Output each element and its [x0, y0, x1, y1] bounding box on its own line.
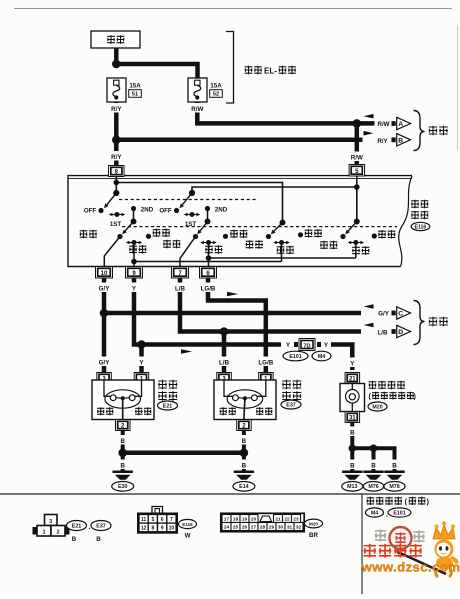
- wire R/W to switch pin 5: [355, 123, 360, 164]
- wire left lamp ground: [121, 431, 125, 471]
- svg-text:B: B: [392, 463, 397, 470]
- svg-text:EL-: EL-: [264, 67, 277, 76]
- svg-text:E37: E37: [96, 523, 105, 529]
- label headlamp switch: [411, 200, 428, 219]
- svg-text:B: B: [350, 463, 355, 470]
- svg-text:A: A: [398, 121, 403, 128]
- svg-text:L/B: L/B: [378, 330, 388, 337]
- svg-text:19: 19: [242, 517, 248, 522]
- connector oval E116 pinout: [179, 519, 197, 528]
- node ground bar right: [240, 449, 249, 458]
- label low D: [320, 241, 337, 249]
- wire high C down: [281, 243, 283, 262]
- svg-text:B: B: [398, 137, 403, 144]
- svg-text:7D: 7D: [303, 343, 310, 349]
- dimmer D low contact: [340, 234, 345, 239]
- node L/B junction: [220, 327, 229, 336]
- svg-text:LG/B: LG/B: [201, 286, 216, 293]
- connector oval E116: [411, 222, 430, 230]
- wire L/B to right lamp: [222, 332, 227, 374]
- wire battery down: [114, 48, 119, 64]
- wire pin 9 link: [133, 262, 135, 267]
- svg-text:3: 3: [49, 519, 52, 525]
- connector oval E101 ref: [388, 508, 411, 517]
- svg-text:1: 1: [42, 530, 45, 536]
- svg-text:M20: M20: [372, 404, 382, 410]
- dimmer C high wiper: [273, 240, 289, 245]
- svg-text:10: 10: [101, 271, 108, 277]
- connector 2 right lamp: [237, 420, 252, 431]
- wire line B to switch 2: [192, 187, 357, 193]
- label B B: [72, 536, 102, 543]
- svg-text:E116: E116: [415, 224, 427, 230]
- label Y after 7D: [324, 343, 328, 349]
- dimmer C neutral contact: [298, 232, 303, 237]
- separator line: [0, 493, 460, 495]
- label R/W: [186, 103, 208, 113]
- svg-text:L/B: L/B: [219, 360, 229, 367]
- wire 2ND to dimmer A: [133, 209, 135, 222]
- right headlamp: [214, 380, 276, 420]
- svg-text:E101: E101: [289, 354, 301, 360]
- connector oval E30: [112, 482, 134, 492]
- label right front headlamp: [282, 380, 301, 401]
- label high C: [277, 246, 294, 254]
- connector 21: [345, 373, 360, 384]
- dimmer D arm: [345, 222, 357, 235]
- svg-text:5: 5: [152, 517, 155, 523]
- svg-text:12: 12: [141, 526, 147, 532]
- connector 7D: [294, 339, 321, 351]
- svg-text:1ST: 1ST: [110, 221, 122, 228]
- wire line A to dimmer C: [116, 183, 282, 223]
- wire ground bar: [123, 451, 244, 456]
- svg-text:B: B: [72, 536, 77, 543]
- svg-text:23: 23: [293, 517, 299, 522]
- svg-text:M4: M4: [371, 510, 378, 516]
- svg-text:R/W: R/W: [377, 121, 389, 128]
- switch 2 1ST wiper: [184, 212, 200, 228]
- svg-text:B: B: [371, 463, 376, 470]
- connector 6: [200, 267, 217, 279]
- svg-text:51: 51: [132, 92, 138, 98]
- svg-text:B: B: [120, 438, 125, 445]
- svg-text:E30: E30: [118, 484, 127, 490]
- connector 8: [109, 166, 125, 177]
- watermark dzsc: [361, 521, 460, 577]
- svg-text:27: 27: [251, 525, 257, 530]
- label see last page: [367, 497, 430, 506]
- wire LG/B down: [208, 278, 266, 373]
- label L/B: [169, 283, 191, 293]
- svg-text:18: 18: [233, 517, 239, 522]
- switch 1 pivot: [113, 190, 119, 196]
- svg-text:LG/B: LG/B: [258, 360, 273, 367]
- connector pinout M20: [221, 513, 304, 531]
- label L/B right lamp: [213, 357, 235, 367]
- connector oval E37 pinout: [91, 521, 111, 531]
- label neutral A: [153, 229, 170, 237]
- dimmer A arm: [122, 222, 133, 235]
- dimmer B high wiper: [200, 240, 216, 245]
- label high beam right: [256, 407, 272, 415]
- svg-text:22: 22: [284, 517, 290, 522]
- node meter ground 2: [370, 445, 378, 453]
- connector oval E14: [233, 482, 255, 492]
- dimmer B pivot: [205, 219, 211, 225]
- dimmer B arm: [197, 222, 207, 235]
- connector 9: [126, 267, 143, 279]
- connector oval M78: [384, 482, 405, 492]
- svg-text:31: 31: [349, 415, 356, 421]
- svg-text:25: 25: [233, 525, 239, 530]
- wire high B down: [208, 243, 210, 259]
- connector pinout E116: [138, 507, 177, 533]
- node R/Y junction: [112, 136, 121, 145]
- svg-text:2: 2: [56, 530, 59, 536]
- wire pin 6 link: [208, 258, 210, 267]
- switch 2 OFF contact: [159, 208, 179, 215]
- svg-text:OFF: OFF: [159, 208, 172, 215]
- switch 1 OFF contact: [84, 208, 104, 215]
- svg-text:.: .: [89, 524, 91, 531]
- svg-text:15A: 15A: [210, 83, 222, 90]
- label Y at meter: [344, 358, 360, 368]
- connector oval E21 lamp: [158, 401, 178, 410]
- label low B: [163, 240, 180, 248]
- battery: [91, 31, 140, 48]
- svg-text:29: 29: [269, 525, 275, 530]
- svg-text:28: 28: [260, 525, 266, 530]
- wire bus high beam left: [131, 259, 281, 265]
- connector oval M4: [312, 351, 331, 361]
- svg-text:17: 17: [224, 517, 230, 522]
- wire L/B bus to next page: [224, 329, 361, 334]
- label low beam left: [97, 407, 113, 415]
- label R/Y: [105, 103, 127, 113]
- dimmer D high wiper: [348, 240, 364, 245]
- dimmer D neutral contact: [372, 233, 377, 238]
- label left front headlamp: [158, 380, 177, 401]
- connector oval E37 lamp: [281, 400, 301, 409]
- divider vertical: [361, 494, 363, 594]
- connector 2 left lamp: [116, 420, 131, 431]
- svg-text:Y: Y: [324, 343, 328, 349]
- node line A tap: [114, 180, 120, 186]
- arrow B R/Y: [364, 131, 411, 146]
- wire fuse 52 down: [197, 102, 356, 123]
- label next page mid: [429, 317, 448, 326]
- svg-text:B: B: [350, 430, 355, 437]
- node ground bar left: [118, 449, 127, 458]
- switch 1 arm: [104, 193, 116, 208]
- svg-text:E21: E21: [72, 523, 81, 529]
- label high beam indicator: [369, 392, 416, 401]
- wire fuse 51 down: [114, 102, 119, 140]
- label Y before 7D: [286, 343, 290, 349]
- label high B: [205, 245, 222, 253]
- dimmer C low contact: [266, 234, 271, 239]
- label LG/B: [196, 283, 221, 293]
- switch 1 1ST wiper: [109, 212, 125, 228]
- node line B tap: [354, 184, 360, 190]
- svg-text:21: 21: [349, 376, 356, 382]
- ground E30: [113, 471, 133, 480]
- label Y: [125, 283, 143, 293]
- flow arrow LG/B: [227, 292, 238, 297]
- dimmer A high wiper: [126, 240, 142, 245]
- label next page top: [429, 126, 448, 135]
- svg-text:24: 24: [224, 525, 230, 530]
- label G/Y left lamp: [93, 357, 115, 367]
- svg-text:R/Y: R/Y: [111, 106, 122, 113]
- switch 2 2ND contact: [205, 206, 228, 214]
- dimmer B neutral contact: [223, 234, 228, 239]
- dashed selector line 2: [122, 226, 397, 228]
- wire ground stub M13: [350, 448, 354, 470]
- label neutral D: [378, 230, 395, 238]
- node R/W junction: [353, 119, 362, 128]
- label low A: [80, 230, 97, 238]
- connector 7: [172, 267, 189, 279]
- svg-text:31: 31: [287, 525, 293, 530]
- svg-text:6: 6: [161, 517, 164, 523]
- ground M76: [363, 471, 383, 480]
- fuse 52 15A: [188, 78, 207, 102]
- label high D: [352, 246, 369, 254]
- label B left: [116, 435, 129, 470]
- wire L/B down: [180, 278, 224, 332]
- switch 2 arm: [180, 193, 193, 208]
- svg-text:B: B: [120, 463, 125, 470]
- connector pinout E21 E37: [33, 515, 70, 537]
- node Y junction: [137, 340, 146, 349]
- label fuse 52: [210, 83, 223, 98]
- dimmer A neutral contact: [146, 234, 151, 239]
- arrow C G/Y: [364, 304, 411, 319]
- switch 2 pivot: [189, 190, 195, 196]
- svg-text:BR: BR: [309, 532, 318, 539]
- svg-text:11: 11: [141, 517, 147, 523]
- left headlamp: [92, 380, 154, 420]
- svg-text:R/Y: R/Y: [111, 154, 122, 161]
- connector oval M20 meter: [368, 402, 387, 411]
- label B meter: [346, 427, 359, 437]
- arrow A R/W: [364, 114, 411, 130]
- label G/Y: [93, 283, 115, 293]
- svg-text:9: 9: [161, 526, 164, 532]
- svg-text:E116: E116: [182, 522, 193, 527]
- ground M78: [384, 471, 404, 480]
- ground M13: [342, 471, 362, 480]
- svg-text:G/Y: G/Y: [378, 311, 390, 318]
- wire right lamp ground: [242, 431, 246, 471]
- connector 10: [96, 267, 113, 279]
- label neutral C: [305, 229, 322, 237]
- switch 1 2ND contact: [131, 206, 154, 214]
- bracket EL-power: [226, 32, 234, 104]
- svg-text:M76: M76: [368, 484, 378, 490]
- svg-text:): ): [414, 394, 416, 401]
- wire ground stub M76: [372, 448, 376, 470]
- svg-text:E101: E101: [393, 510, 405, 516]
- connector oval M20 pinout: [305, 519, 323, 528]
- wire Y to meter: [331, 345, 352, 371]
- label R/Y at pin 8: [105, 151, 127, 161]
- label low beam right: [220, 407, 236, 415]
- svg-text:20: 20: [251, 517, 257, 522]
- dimmer C pivot: [280, 220, 286, 226]
- wire high A down: [133, 243, 135, 262]
- fuse 51 15A: [107, 78, 126, 102]
- brace next page top: [414, 111, 425, 151]
- wire battery to fuse 52: [116, 64, 197, 79]
- dimmer A low contact: [117, 234, 122, 239]
- svg-text:L/B: L/B: [175, 286, 185, 293]
- svg-text:B: B: [242, 438, 247, 445]
- label low C: [246, 240, 263, 248]
- label W: [185, 533, 191, 540]
- svg-text:B: B: [96, 536, 101, 543]
- connector oval E21 pinout: [67, 521, 91, 532]
- label see EL-power: [245, 66, 296, 76]
- label high beam left: [135, 407, 151, 415]
- svg-text:8: 8: [152, 526, 155, 532]
- wire ground stub M78: [393, 462, 397, 471]
- arrow D L/B: [364, 323, 411, 338]
- wire R/Y bus to next page: [116, 138, 362, 143]
- connector 3 left lamp: [97, 373, 112, 384]
- label combination meter: [369, 381, 405, 389]
- svg-text:R/Y: R/Y: [377, 138, 388, 145]
- label fuse 51: [129, 83, 142, 98]
- svg-text:C: C: [398, 311, 403, 318]
- dashed selector line 1: [119, 199, 258, 201]
- svg-text:E21: E21: [163, 403, 172, 409]
- svg-text:52: 52: [213, 92, 219, 98]
- wire pin8 internal: [115, 177, 117, 194]
- svg-text:R/W: R/W: [351, 155, 363, 162]
- label neutral B: [230, 230, 247, 238]
- wire G/Y bus to next page: [104, 311, 361, 316]
- dimmer B low contact: [193, 234, 198, 239]
- label B grounds: [346, 460, 400, 470]
- dimmer D pivot: [354, 219, 360, 225]
- wire meter ground: [350, 423, 354, 449]
- svg-text:30: 30: [278, 525, 284, 530]
- scan border line top: [14, 8, 452, 10]
- scan border line right: [457, 25, 459, 150]
- label Y left lamp: [133, 357, 151, 367]
- brace next page mid: [414, 301, 425, 345]
- svg-text:Y: Y: [286, 343, 290, 349]
- wire R/W stub: [357, 121, 375, 126]
- svg-text:32: 32: [296, 525, 302, 530]
- wire pin5 internal: [356, 176, 358, 222]
- label high A: [129, 245, 146, 253]
- ground E14: [234, 471, 254, 480]
- svg-text:G/Y: G/Y: [99, 360, 111, 367]
- combination meter high beam indicator: [340, 384, 365, 412]
- svg-text:B: B: [242, 463, 247, 470]
- connector 3 right lamp: [217, 373, 232, 384]
- svg-text:D: D: [398, 329, 403, 336]
- connector 1 right lamp: [259, 373, 274, 384]
- connector oval M4 ref: [366, 508, 389, 519]
- svg-text:R/W: R/W: [191, 106, 203, 113]
- label B right: [237, 435, 250, 470]
- wire low A to pin 10: [104, 237, 120, 267]
- svg-text:M13: M13: [347, 484, 357, 490]
- svg-text:2ND: 2ND: [141, 207, 154, 214]
- wire Y down: [134, 278, 281, 345]
- node battery junction: [112, 60, 121, 69]
- svg-text:W: W: [185, 533, 191, 540]
- wire high D down: [355, 243, 357, 259]
- connector oval E101: [283, 351, 308, 361]
- svg-text:M78: M78: [389, 484, 399, 490]
- svg-text:OFF: OFF: [84, 208, 97, 215]
- wire meter ground split: [352, 448, 394, 462]
- wire bus high beam right: [206, 255, 356, 261]
- svg-text:1ST: 1ST: [185, 221, 197, 228]
- node G/Y junction: [100, 309, 109, 318]
- node meter ground 1: [349, 445, 357, 453]
- svg-text:26: 26: [242, 525, 248, 530]
- svg-text:www.dzsc.com: www.dzsc.com: [361, 560, 460, 575]
- svg-text:E37: E37: [286, 402, 295, 408]
- svg-text:G/Y: G/Y: [99, 286, 111, 293]
- flow arrow Y: [181, 349, 192, 354]
- svg-text:7: 7: [170, 517, 173, 523]
- svg-text:M4: M4: [318, 354, 325, 360]
- label BR: [309, 532, 318, 539]
- headlamp switch box E116: [68, 176, 412, 267]
- wire 2ND to dimmer B: [207, 209, 209, 222]
- svg-text:2ND: 2ND: [215, 207, 228, 214]
- wire G/Y down: [102, 278, 107, 373]
- svg-text:M20: M20: [309, 521, 318, 526]
- wire low B to pin 7: [180, 237, 196, 267]
- svg-text:21: 21: [275, 517, 281, 522]
- dimmer A pivot: [131, 219, 137, 225]
- connector oval M76: [363, 482, 383, 492]
- svg-text:10: 10: [169, 526, 175, 532]
- connector oval M13: [342, 482, 363, 492]
- wire Y to left lamp: [139, 345, 144, 374]
- label LG/B right lamp: [253, 357, 278, 367]
- connector 5: [349, 165, 365, 177]
- svg-text:15A: 15A: [129, 83, 141, 90]
- connector 31: [345, 412, 360, 423]
- connector 1 left lamp: [134, 373, 149, 384]
- dimmer C arm: [271, 223, 283, 235]
- wire R/Y to switch pin 8: [114, 140, 119, 166]
- svg-text:E14: E14: [239, 484, 248, 490]
- label R/W at pin 5: [346, 152, 368, 162]
